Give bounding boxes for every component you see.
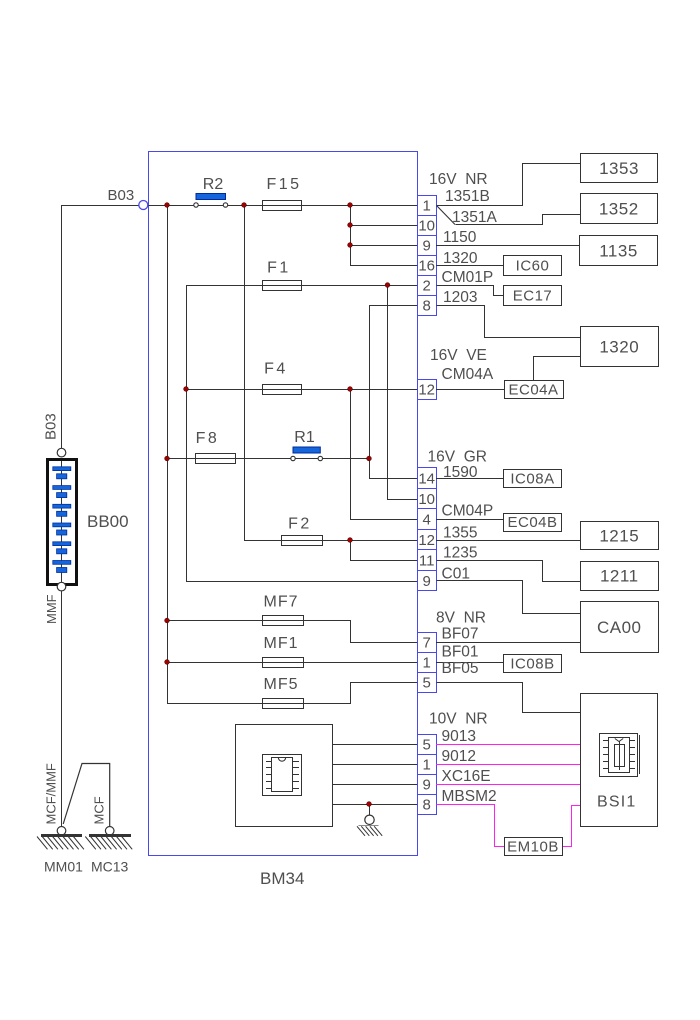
svg-text:1150: 1150: [443, 229, 477, 246]
svg-text:CM04P: CM04P: [442, 503, 494, 520]
svg-text:MF5: MF5: [264, 676, 299, 693]
svg-text:10V NR: 10V NR: [429, 711, 488, 728]
svg-text:2: 2: [423, 277, 431, 294]
svg-text:MC13: MC13: [91, 859, 129, 875]
svg-text:BSI1: BSI1: [597, 794, 637, 811]
svg-text:MCF/MMF: MCF/MMF: [44, 763, 59, 824]
svg-text:IC08B: IC08B: [510, 655, 554, 672]
svg-text:8: 8: [423, 297, 431, 314]
svg-text:7: 7: [423, 634, 431, 651]
svg-text:10: 10: [418, 491, 435, 508]
svg-text:F4: F4: [264, 361, 288, 378]
svg-text:BB00: BB00: [87, 512, 129, 531]
svg-text:IC08A: IC08A: [510, 471, 554, 488]
svg-text:1355: 1355: [443, 525, 477, 542]
svg-text:9: 9: [423, 573, 431, 590]
svg-text:IC60: IC60: [516, 258, 550, 275]
svg-text:12: 12: [418, 532, 435, 549]
svg-text:8V NR: 8V NR: [436, 610, 486, 627]
svg-text:MCF: MCF: [92, 796, 107, 824]
svg-text:9013: 9013: [442, 728, 476, 745]
svg-text:B03: B03: [43, 413, 60, 440]
svg-text:1590: 1590: [443, 464, 478, 481]
svg-text:1353: 1353: [599, 159, 639, 178]
svg-text:9: 9: [423, 237, 431, 254]
svg-text:1135: 1135: [599, 241, 638, 260]
svg-text:8: 8: [423, 796, 431, 813]
svg-text:R2: R2: [203, 176, 224, 193]
svg-text:10: 10: [418, 217, 435, 234]
svg-text:C01: C01: [442, 566, 470, 583]
svg-text:16V NR: 16V NR: [429, 171, 488, 188]
svg-text:16V VE: 16V VE: [430, 347, 487, 364]
svg-text:BF01: BF01: [442, 644, 479, 661]
svg-text:EC04B: EC04B: [507, 514, 557, 531]
svg-text:5: 5: [423, 736, 431, 753]
svg-text:1320: 1320: [599, 337, 639, 356]
svg-text:1: 1: [423, 756, 431, 773]
svg-text:MBSM2: MBSM2: [442, 788, 497, 805]
svg-text:F15: F15: [266, 176, 301, 193]
svg-text:CM04A: CM04A: [442, 366, 494, 383]
svg-text:4: 4: [423, 511, 431, 528]
svg-text:1: 1: [423, 197, 431, 214]
svg-text:EM10B: EM10B: [507, 838, 559, 855]
svg-text:1320: 1320: [443, 250, 478, 267]
svg-text:14: 14: [418, 470, 435, 487]
svg-text:16: 16: [418, 257, 435, 274]
svg-text:1351B: 1351B: [445, 188, 490, 205]
svg-text:R1: R1: [294, 429, 315, 446]
svg-text:5: 5: [423, 674, 431, 691]
svg-text:MF1: MF1: [264, 635, 299, 652]
svg-text:B03: B03: [108, 187, 135, 204]
svg-text:F1: F1: [267, 260, 291, 277]
svg-text:XC16E: XC16E: [442, 768, 491, 785]
svg-text:1: 1: [423, 654, 431, 671]
svg-text:CA00: CA00: [597, 618, 642, 637]
svg-text:EC17: EC17: [513, 288, 553, 305]
svg-text:BM34: BM34: [260, 869, 304, 888]
svg-text:MF7: MF7: [264, 594, 299, 611]
svg-text:1203: 1203: [443, 289, 477, 306]
svg-text:F8: F8: [196, 430, 220, 447]
svg-text:EC04A: EC04A: [508, 381, 558, 398]
svg-text:1352: 1352: [599, 199, 639, 218]
svg-text:12: 12: [418, 381, 435, 398]
svg-text:1235: 1235: [443, 545, 477, 562]
svg-text:16V GR: 16V GR: [428, 449, 487, 466]
svg-text:MMF: MMF: [44, 594, 59, 624]
svg-text:11: 11: [419, 552, 435, 569]
svg-text:1351A: 1351A: [452, 209, 497, 226]
svg-text:1211: 1211: [600, 567, 639, 586]
svg-text:9: 9: [423, 776, 431, 793]
svg-text:F2: F2: [288, 516, 312, 533]
svg-text:BF05: BF05: [442, 660, 479, 677]
svg-text:1215: 1215: [599, 526, 639, 545]
svg-text:CM01P: CM01P: [442, 269, 494, 286]
svg-text:9012: 9012: [442, 748, 476, 765]
svg-text:MM01: MM01: [44, 859, 83, 875]
svg-text:BF07: BF07: [442, 626, 479, 643]
